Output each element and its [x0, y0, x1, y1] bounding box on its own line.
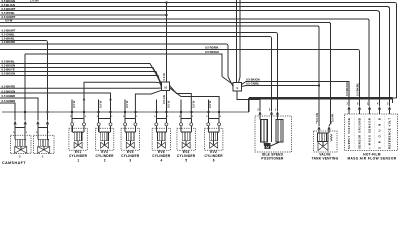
tank venting valve [314, 113, 338, 152]
wire J3 camshaft1 pin2 [24, 54, 26, 121]
wire A5 0.5 GN/WT [0, 15, 369, 106]
svg-text:CYLINDER: CYLINDER [152, 154, 171, 158]
wire T2 feed from top a [236, 0, 238, 83]
svg-text:5: 5 [185, 159, 187, 163]
wire B2 0.5 GN/BL [0, 33, 272, 111]
svg-text:POSITIONER: POSITIONER [261, 157, 284, 161]
wire E4 0.5 BK/GN [0, 89, 112, 118]
svg-text:1.0 BK/RD: 1.0 BK/RD [2, 40, 16, 44]
svg-text:0.5 GN/BR: 0.5 GN/BR [2, 94, 16, 98]
splice T1 [162, 82, 170, 91]
svg-text:SENSOR GROUND: SENSOR GROUND [358, 118, 362, 149]
svg-text:0.5 W: 0.5 W [166, 100, 170, 108]
hot-film mass air flow sensor [345, 98, 398, 150]
svg-text:CAMSHAFT: CAMSHAFT [2, 161, 26, 165]
svg-text:0.5 GN/BL: 0.5 GN/BL [246, 81, 260, 85]
splice T2 [233, 83, 242, 92]
injector EV5 cylinder 3 [121, 100, 140, 163]
vertical label 0.5 BK/BL [355, 82, 359, 96]
svg-text:0.5 GN: 0.5 GN [315, 113, 319, 122]
svg-text:0.5 WT/BL: 0.5 WT/BL [2, 11, 16, 15]
idle speed positioner [255, 108, 292, 152]
wire D1 0.5 BK/BL [0, 60, 162, 84]
wire D3 0.5 BK/YE [0, 68, 162, 87]
wire A6 [0, 22, 331, 120]
injector EV1 cylinder 1 [69, 100, 88, 163]
svg-text:+ MASS SENSOR: + MASS SENSOR [368, 118, 372, 149]
wire C2 0.5 RD/GN [25, 50, 222, 77]
wire H1 into T2 a [222, 77, 233, 85]
svg-text:CYLINDER: CYLINDER [177, 154, 196, 158]
wire A3 0.5 BK/WT [0, 7, 380, 106]
svg-text:6: 6 [213, 159, 215, 163]
wire E3 0.5 BK/RD [0, 85, 162, 89]
wire E2 to cylinder1 [83, 82, 162, 118]
wire A1 0.5 BK/GN [0, 0, 397, 98]
wire T2 feed from top b [239, 0, 241, 83]
svg-text:0.5 RD/BK: 0.5 RD/BK [205, 45, 219, 49]
wire B1 0.5 BK/WT [0, 29, 278, 111]
svg-text:1: 1 [77, 159, 79, 163]
maf label [347, 152, 396, 160]
label 1.0 BR [30, 0, 39, 3]
wire H4 0.5 GN/BL to vent [242, 81, 321, 86]
wire H3 0.5 BK/GN to MAF pin1 [242, 77, 350, 106]
injector EV3 cylinder 2 [95, 100, 114, 163]
wire J2 0.5 GN/BR camshaft1 [0, 99, 15, 120]
svg-text:4: 4 [160, 159, 162, 163]
wire A4 0.5 WT/BL [0, 11, 167, 16]
svg-text:0.5 BK/GN: 0.5 BK/GN [2, 72, 16, 76]
svg-text:CYLINDER: CYLINDER [95, 154, 114, 158]
ground bus left [2, 111, 249, 113]
wire F1 0.5 W vertical [162, 2, 167, 83]
svg-text:CYLINDER: CYLINDER [69, 154, 88, 158]
wire D4 0.5 BK/GN [0, 72, 162, 88]
wire G1 to cylinder5 [170, 86, 192, 119]
svg-text:0.5 BK/RD: 0.5 BK/RD [2, 85, 16, 89]
svg-text:0.5 W: 0.5 W [72, 100, 76, 108]
svg-text:TANK VENTING: TANK VENTING [312, 157, 339, 161]
idle speed positioner label [261, 152, 284, 160]
camshaft solenoid 2 [11, 121, 32, 159]
wire B3 1.0 BK/BL [0, 37, 49, 121]
svg-text:0.5 W: 0.5 W [208, 100, 212, 108]
svg-text:0.5 W: 0.5 W [162, 73, 166, 81]
svg-text:SUPPLY VOLTAGE: SUPPLY VOLTAGE [347, 118, 351, 149]
svg-text:REFERENCE VOLT: REFERENCE VOLT [388, 118, 392, 149]
svg-text:0.5 BK/GN: 0.5 BK/GN [345, 82, 349, 96]
svg-text:1.0 BR: 1.0 BR [30, 0, 39, 3]
wire E1 to cylinder3 [135, 90, 161, 118]
wire H5 T2 down to idle pin1 [237, 91, 260, 111]
svg-text:0.5 BK/BL: 0.5 BK/BL [355, 82, 359, 96]
svg-text:0.5 W: 0.5 W [5, 19, 13, 23]
svg-text:CYLINDER: CYLINDER [205, 154, 224, 158]
wire J1 0.5 GN/BR camshaft2 [0, 94, 38, 120]
wire H2 into T2 b [228, 77, 233, 87]
wire F2 splice to injector4 [162, 91, 166, 119]
svg-text:0.5 BK/GN: 0.5 BK/GN [2, 89, 16, 93]
ground bus step [248, 98, 250, 112]
svg-text:0.5 W: 0.5 W [98, 100, 102, 108]
svg-text:CYLINDER: CYLINDER [121, 154, 140, 158]
wire C1 0.5 RD/BK [0, 45, 360, 106]
injector EV6 cylinder 4 [152, 100, 171, 163]
svg-text:0.5 W: 0.5 W [125, 100, 129, 108]
svg-text:MASS AIR FLOW SENSOR: MASS AIR FLOW SENSOR [347, 157, 396, 161]
vertical label 0.5 BK/GN [345, 82, 349, 96]
label 0.5 W line6 [5, 19, 13, 23]
injector EV2 cylinder 6 [205, 100, 224, 163]
ground bus right thick [249, 97, 397, 99]
wire A7 [0, 26, 319, 123]
camshaft label [2, 161, 26, 165]
svg-text:2: 2 [104, 159, 106, 163]
wire D2 0.5 BK/GN [0, 64, 162, 85]
tank venting valve label [312, 153, 339, 161]
svg-text:M: M [266, 144, 269, 149]
wire B4 1.0 BK/RD [0, 40, 228, 76]
svg-text:0.5 PK: 0.5 PK [331, 113, 335, 122]
svg-text:3: 3 [129, 159, 131, 163]
svg-text:0.5 W: 0.5 W [191, 100, 195, 108]
svg-text:0.5 RD/GN: 0.5 RD/GN [205, 50, 219, 54]
wire A2 0.5 BL/GN [0, 3, 390, 106]
camshaft solenoid 1 [34, 121, 55, 159]
svg-text:0.5 GN/BR: 0.5 GN/BR [2, 99, 16, 103]
injector EV4 cylinder 5 [177, 100, 196, 163]
wire G2 to cylinder6 [170, 88, 220, 119]
